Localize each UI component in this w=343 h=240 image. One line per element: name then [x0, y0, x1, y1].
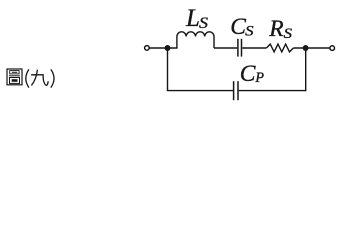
svg-text:C: C	[230, 14, 246, 40]
svg-text:R: R	[268, 16, 283, 42]
svg-text:S: S	[245, 24, 254, 40]
svg-text:P: P	[254, 70, 264, 86]
svg-text:S: S	[284, 26, 293, 42]
svg-text:L: L	[185, 5, 200, 32]
svg-text:S: S	[199, 15, 208, 32]
svg-text:C: C	[240, 61, 256, 87]
